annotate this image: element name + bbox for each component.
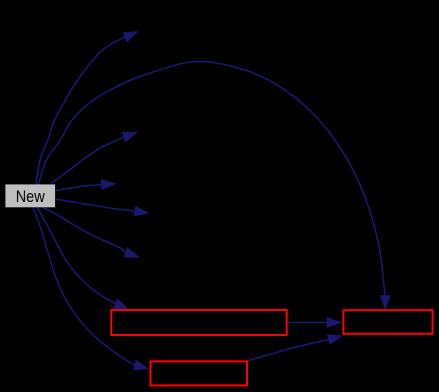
- svg-text:New: New: [16, 188, 45, 206]
